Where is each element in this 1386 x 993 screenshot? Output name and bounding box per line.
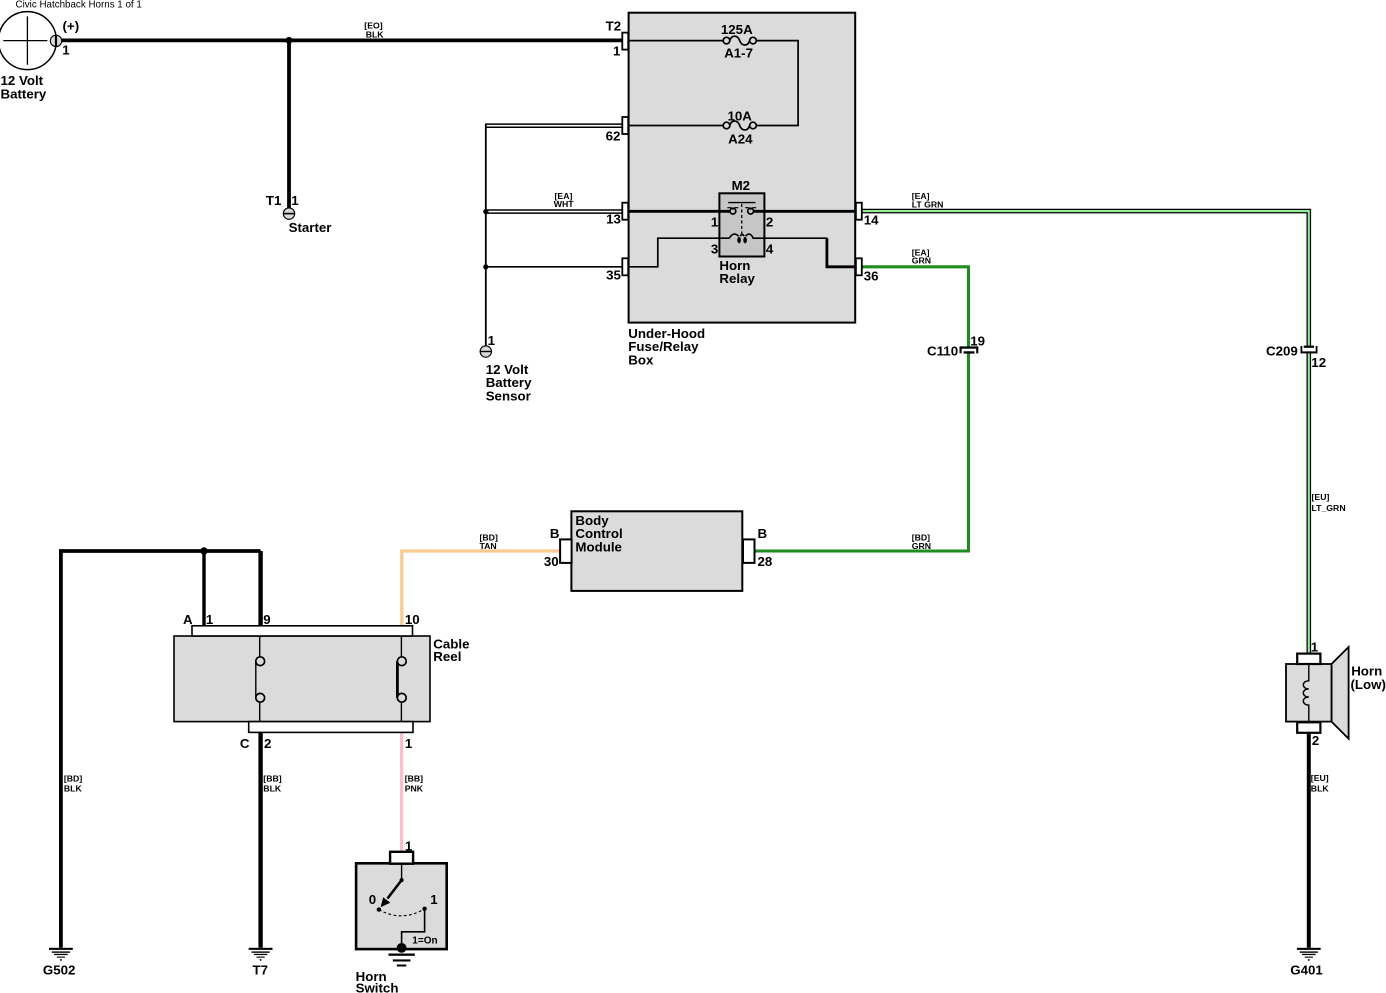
svg-text:BLK: BLK [1311, 783, 1330, 793]
svg-text:1: 1 [613, 43, 621, 58]
svg-text:1: 1 [405, 736, 413, 751]
svg-text:36: 36 [864, 268, 879, 283]
svg-text:3: 3 [711, 242, 718, 257]
svg-text:(+): (+) [63, 19, 80, 34]
svg-text:BLK: BLK [263, 784, 282, 794]
svg-text:1: 1 [206, 612, 214, 627]
svg-text:10: 10 [405, 612, 420, 627]
svg-text:A1-7: A1-7 [724, 46, 753, 61]
svg-text:GRN: GRN [912, 256, 931, 266]
svg-text:14: 14 [864, 213, 879, 228]
svg-text:125A: 125A [721, 22, 753, 37]
svg-text:A: A [183, 612, 193, 627]
svg-text:G401: G401 [1290, 963, 1323, 978]
svg-text:A24: A24 [728, 132, 753, 147]
svg-text:T7: T7 [253, 963, 269, 978]
svg-text:B: B [550, 526, 560, 541]
svg-text:[EU]: [EU] [1312, 492, 1330, 502]
svg-text:[EU]: [EU] [1311, 773, 1329, 783]
svg-text:10A: 10A [728, 108, 753, 123]
svg-text:19: 19 [970, 333, 985, 348]
svg-text:35: 35 [606, 268, 621, 283]
svg-text:PNK: PNK [405, 784, 424, 794]
svg-text:G502: G502 [43, 963, 76, 978]
svg-text:Relay: Relay [719, 271, 755, 286]
svg-text:BLK: BLK [366, 30, 385, 40]
svg-text:Starter: Starter [289, 220, 332, 235]
svg-text:9: 9 [263, 612, 270, 627]
svg-text:[BB]: [BB] [263, 773, 281, 783]
svg-text:C: C [240, 736, 250, 751]
svg-text:2: 2 [1312, 733, 1319, 748]
svg-text:M2: M2 [732, 178, 750, 193]
svg-text:BLK: BLK [64, 784, 83, 794]
svg-text:[BD]: [BD] [64, 773, 82, 783]
svg-text:WHT: WHT [554, 199, 574, 209]
svg-text:1: 1 [62, 42, 70, 57]
svg-text:Reel: Reel [433, 649, 461, 664]
svg-text:B: B [758, 526, 768, 541]
svg-text:Switch: Switch [356, 981, 399, 993]
svg-text:C209: C209 [1266, 343, 1298, 358]
svg-text:4: 4 [766, 242, 774, 257]
svg-text:(Low): (Low) [1351, 677, 1386, 692]
svg-text:1: 1 [430, 892, 438, 907]
svg-text:T1: T1 [266, 193, 282, 208]
svg-text:1: 1 [405, 838, 413, 853]
svg-text:1: 1 [488, 333, 496, 348]
svg-text:Module: Module [575, 540, 622, 555]
svg-text:12: 12 [1311, 355, 1326, 370]
svg-text:LT_GRN: LT_GRN [1312, 503, 1346, 513]
svg-text:13: 13 [606, 212, 621, 227]
svg-text:30: 30 [544, 554, 559, 569]
svg-text:C110: C110 [927, 343, 958, 358]
svg-text:1: 1 [291, 193, 299, 208]
svg-text:2: 2 [264, 736, 271, 751]
svg-text:[BB]: [BB] [405, 773, 423, 783]
svg-text:1: 1 [1311, 639, 1319, 654]
svg-text:28: 28 [758, 554, 773, 569]
svg-text:Box: Box [628, 353, 654, 368]
svg-text:Sensor: Sensor [486, 388, 531, 403]
svg-text:1: 1 [711, 214, 719, 229]
svg-text:GRN: GRN [912, 541, 931, 551]
svg-text:1=On: 1=On [412, 935, 437, 946]
svg-text:Battery: Battery [1, 86, 47, 101]
svg-text:LT GRN: LT GRN [912, 200, 944, 210]
svg-text:T2: T2 [606, 19, 622, 34]
svg-text:0: 0 [369, 892, 376, 907]
svg-text:TAN: TAN [480, 541, 497, 551]
svg-text:2: 2 [766, 214, 773, 229]
svg-text:Civic Hatchback Horns 1 of 1: Civic Hatchback Horns 1 of 1 [16, 0, 142, 10]
svg-text:62: 62 [606, 129, 621, 144]
